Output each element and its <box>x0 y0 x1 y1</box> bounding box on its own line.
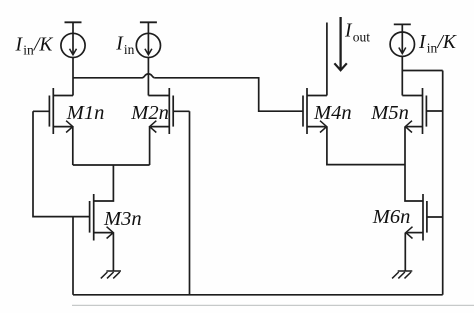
svg-text:I: I <box>344 21 353 42</box>
wire M5n source to M6n drain <box>405 127 423 201</box>
wire M3n source to ground <box>112 233 114 271</box>
transistor M1n <box>33 88 73 134</box>
svg-text:I: I <box>418 32 427 53</box>
label Iout <box>344 21 370 45</box>
svg-text:I: I <box>15 34 24 55</box>
current source I3 Iin/K (right) <box>390 24 414 56</box>
wire rail left segment <box>73 77 142 79</box>
current source I1 Iin/K (left) <box>61 22 85 57</box>
svg-text:/K: /K <box>33 34 53 55</box>
ground (M6n source) <box>392 271 412 278</box>
transistor M3n <box>90 194 114 241</box>
svg-text:M2n: M2n <box>130 102 169 124</box>
svg-text:/K: /K <box>437 32 457 53</box>
supply bar T1 (left) <box>65 21 82 23</box>
scan artifact line <box>72 304 474 306</box>
svg-text:M4n: M4n <box>313 102 352 124</box>
svg-text:M5n: M5n <box>370 102 409 124</box>
transistor M6n <box>406 194 443 241</box>
svg-text:in: in <box>427 40 438 55</box>
wire source rail to M3n drain riser <box>94 165 114 201</box>
wire source rail M1n-M2n <box>73 164 150 166</box>
wire M1n source drop <box>72 127 74 165</box>
wire right bus vertical <box>442 71 444 295</box>
label M1n <box>66 102 105 124</box>
ground (M3n source) <box>101 271 121 278</box>
svg-text:in: in <box>124 42 135 57</box>
wire bottom rail <box>73 294 443 296</box>
wire I3 to M5n drain <box>401 56 403 95</box>
svg-text:in: in <box>23 43 34 58</box>
svg-text:I: I <box>115 34 124 55</box>
label Iin (middle) <box>115 34 134 57</box>
wire I3 node to right bus <box>402 70 442 72</box>
wire M4n source drop <box>327 127 405 165</box>
label Iin/K (right) <box>418 32 457 55</box>
wire rail right segment <box>155 78 303 111</box>
label M6n <box>372 206 411 228</box>
wire M1n gate to M3n gate <box>33 111 90 216</box>
svg-text:M3n: M3n <box>103 208 142 230</box>
wire M2n source drop <box>149 127 151 165</box>
label M4n <box>313 102 352 124</box>
transistor M2n <box>148 88 189 134</box>
wire I2 to M2n drain <box>147 58 149 96</box>
current source I2 Iin (middle) <box>136 22 160 57</box>
transistor M5n <box>402 88 442 134</box>
wire hop over Iin wire <box>142 74 155 78</box>
label Iin/K (left) <box>15 34 54 57</box>
label M3n <box>103 208 142 230</box>
wire gate bus drop (left) <box>72 217 74 295</box>
supply bar T3 (right) <box>394 23 411 25</box>
svg-text:M6n: M6n <box>372 206 411 228</box>
wire I1 to M1n drain <box>72 58 74 96</box>
Iout arrow <box>334 17 346 70</box>
wire M4n drain to Iout <box>326 23 328 96</box>
label M2n <box>130 102 169 124</box>
label M5n <box>370 102 409 124</box>
svg-text:out: out <box>353 30 371 45</box>
svg-text:M1n: M1n <box>66 102 105 124</box>
wire M6n source to ground <box>404 233 406 271</box>
transistor M4n <box>303 88 327 134</box>
supply bar T2 (middle) <box>140 21 157 23</box>
wire M2n gate drop to bottom rail <box>189 111 191 294</box>
